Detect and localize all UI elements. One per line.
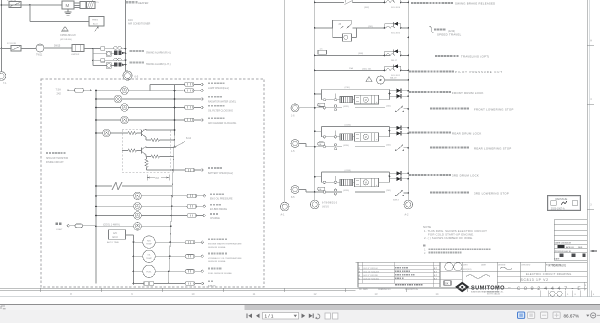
revision table right	[554, 220, 587, 260]
table number row	[554, 249, 587, 253]
svg-text:SENSOR SIGNAL: SENSOR SIGNAL	[208, 260, 227, 263]
label pilot pressure cut	[409, 70, 503, 74]
svg-text:5W13: 5W13	[393, 200, 399, 202]
svg-text:PILOT PRESSURE CUT: PILOT PRESSURE CUT	[455, 70, 503, 74]
label hyd oil temp	[208, 253, 242, 264]
label opt	[435, 55, 490, 59]
svg-text:SPEED TRAVEL: SPEED TRAVEL	[437, 33, 462, 37]
lamp L6	[95, 192, 233, 200]
earth bus E	[284, 0, 286, 202]
monitor bus	[95, 89, 97, 283]
wire	[314, 27, 333, 29]
svg-text:FUEL: FUEL	[146, 271, 152, 273]
svg-text:REAR LOWERING STOP: REAR LOWERING STOP	[474, 146, 512, 150]
svg-text:AIR CONDITIONER: AIR CONDITIONER	[128, 23, 151, 26]
svg-text:HYDRAULIC OIL TEMPERATURE: HYDRAULIC OIL TEMPERATURE	[208, 257, 242, 260]
wire	[84, 48, 100, 50]
motor TW11	[36, 44, 44, 57]
svg-text:2. ( ) SHOWS NUMBER OF WIRE.: 2. ( ) SHOWS NUMBER OF WIRE.	[424, 236, 473, 240]
svg-text:DRAWING NO.: DRAWING NO.	[378, 288, 391, 291]
svg-text:TEMP: TEMP	[146, 258, 152, 260]
reissue stamp	[548, 196, 581, 211]
stop switch 3RD	[314, 179, 409, 196]
svg-text:PRES: PRES	[92, 20, 98, 22]
svg-text:DESCRIPTION: DESCRIPTION	[405, 289, 419, 291]
approval strip	[540, 291, 595, 297]
svg-text:SENSOR SIGNAL: SENSOR SIGNAL	[208, 246, 227, 249]
label FRONT drum lock	[409, 91, 484, 95]
svg-text:CHARGE: CHARGE	[210, 217, 220, 220]
lamp L5	[95, 129, 128, 137]
limiter box U3	[71, 45, 84, 57]
amplifier boundary	[122, 130, 170, 173]
table note row	[549, 265, 567, 268]
svg-text:4/16: 4/16	[128, 19, 133, 22]
connector 1-5	[291, 140, 325, 154]
label cool switch	[103, 223, 120, 226]
lamp L4	[95, 116, 184, 124]
svg-text:M: M	[66, 3, 70, 8]
connector A-2	[404, 200, 413, 216]
buzzer BZ1	[106, 51, 114, 56]
right margin ticks	[587, 40, 594, 210]
warning triangle W1	[62, 27, 68, 32]
svg-text:5AL19: 5AL19	[390, 77, 397, 80]
wire	[2, 48, 37, 50]
svg-text:M: M	[365, 136, 367, 139]
amplifier riser	[169, 85, 176, 284]
svg-text:15A: 15A	[349, 67, 353, 70]
left bus lower	[1, 49, 3, 73]
connector 8-5	[291, 186, 325, 200]
svg-text:86.67%: 86.67%	[564, 313, 580, 318]
lamp L3	[95, 104, 184, 112]
svg-text:OIL FILTER CLOGGING: OIL FILTER CLOGGING	[208, 111, 233, 113]
gauge G2 oil temp	[134, 250, 171, 262]
svg-text:(4136): (4136)	[343, 190, 349, 192]
svg-text:(4132): (4132)	[345, 124, 352, 126]
pressure switch PS1	[333, 20, 357, 41]
svg-text:SWING ALARM (R.H.): SWING ALARM (R.H.)	[146, 51, 171, 54]
AC unit box U2	[89, 17, 104, 27]
label 3RD lowering stop	[430, 192, 509, 196]
ground GND1	[65, 9, 72, 15]
stop switch REAR	[314, 133, 409, 151]
terminal T6	[170, 240, 204, 244]
label FRONT lowering stop	[430, 107, 514, 111]
AC ECU box U4	[107, 230, 126, 245]
connector 7-1	[0, 72, 7, 85]
wire	[2, 4, 31, 6]
contact K3	[345, 0, 353, 5]
svg-text:A-2: A-2	[405, 214, 410, 217]
svg-text:2.: 2.	[424, 252, 426, 255]
svg-text:APR.03: APR.03	[566, 246, 574, 249]
svg-text:FRONT DRUM LOCK: FRONT DRUM LOCK	[452, 91, 484, 95]
dimension 8.8	[147, 175, 169, 181]
terminal T3	[185, 106, 204, 110]
svg-text:DWG: DWG	[463, 264, 468, 266]
label monitor circuit	[46, 152, 68, 164]
label 3RD drum lock	[409, 174, 479, 178]
label fuel sensor	[208, 268, 233, 276]
svg-text:7.5A: 7.5A	[56, 88, 62, 92]
title cells	[462, 262, 587, 290]
svg-text:FUEL SENSOR SIGNAL: FUEL SENSOR SIGNAL	[208, 272, 233, 275]
buzzer BZ2	[106, 63, 114, 68]
svg-text:A/C: A/C	[113, 232, 117, 235]
terminal T7	[170, 255, 204, 259]
svg-text:SWING ALARM (L.H.): SWING ALARM (L.H.)	[146, 63, 171, 66]
wire	[30, 5, 89, 22]
svg-text:BOTH-YA42A: BOTH-YA42A	[487, 293, 500, 296]
svg-text:DATE 20030108: DATE 20030108	[555, 241, 572, 244]
revision bottom row	[358, 287, 440, 291]
wire	[126, 234, 134, 236]
approval stamps	[440, 262, 462, 287]
wire 5W15	[44, 45, 72, 49]
svg-text:3RD LOWERING STOP: 3RD LOWERING STOP	[474, 192, 509, 196]
wire	[93, 60, 106, 65]
motor unit FRONT	[314, 87, 409, 104]
resistor R2	[146, 137, 175, 141]
callout 8-12	[173, 137, 192, 148]
wire	[147, 169, 174, 171]
svg-text:SOL.NO6: SOL.NO6	[391, 7, 401, 9]
wire	[314, 2, 344, 4]
svg-text:SWING BRAKE RELEASED: SWING BRAKE RELEASED	[455, 2, 495, 6]
svg-text:A-1: A-1	[281, 214, 286, 217]
resize grip	[1, 306, 6, 309]
relay bus R	[407, 0, 409, 200]
svg-text:BATTERY CHECK(hour): BATTERY CHECK(hour)	[208, 172, 233, 175]
alarm relay K2	[93, 59, 114, 62]
svg-text:TRAVELING (OPT): TRAVELING (OPT)	[461, 55, 490, 59]
control box U1	[62, 1, 74, 9]
note text	[423, 225, 487, 240]
svg-text:6-5: 6-5	[135, 74, 139, 78]
connector CNP	[310, 200, 337, 209]
title name	[526, 272, 572, 276]
svg-text:8-12: 8-12	[186, 137, 192, 140]
page cell	[584, 282, 587, 291]
svg-text:M: M	[365, 182, 367, 185]
title block frame	[356, 261, 588, 263]
buzzer BZ3	[377, 76, 410, 84]
gauge G3 fuel	[134, 265, 170, 277]
revision table	[358, 262, 440, 287]
svg-text:03.1.8 YJ31144: 03.1.8 YJ31144	[363, 268, 378, 270]
svg-text:ECU: ECU	[113, 236, 118, 239]
svg-text:SOL.NO5: SOL.NO5	[391, 33, 401, 35]
svg-text:SPDx/1ST MONITOR: SPDx/1ST MONITOR	[46, 158, 68, 160]
callout arrow	[95, 26, 99, 31]
label lamp check	[208, 82, 229, 90]
earth resistor	[134, 282, 169, 286]
svg-text:REISSUE: REISSUE	[556, 197, 568, 201]
svg-text:5W15: 5W15	[54, 45, 61, 48]
svg-text:TEMP: TEMP	[146, 244, 152, 246]
wire	[146, 147, 174, 148]
svg-text:CR501393-1/8: CR501393-1/8	[60, 34, 76, 37]
svg-text:ENGINE WATER TEMPERATURE: ENGINE WATER TEMPERATURE	[208, 243, 242, 246]
warning triangle W2	[366, 77, 372, 83]
break symbol N	[95, 182, 172, 190]
svg-text:M: M	[365, 99, 367, 102]
terminal T1	[150, 83, 203, 91]
node J2	[92, 48, 94, 50]
svg-text:(241) 241: (241) 241	[362, 68, 372, 70]
gauge G1 water temp	[134, 236, 172, 248]
svg-text:EX-BRK BRAKE: EX-BRK BRAKE	[210, 208, 227, 211]
wire 302	[353, 3, 386, 10]
wire	[146, 129, 175, 130]
resistor R4	[146, 155, 174, 158]
terminal T2	[185, 89, 204, 93]
svg-text:(241): (241)	[386, 106, 391, 108]
svg-text:(4131): (4131)	[343, 106, 349, 108]
svg-text:REAR DRUM LOCK: REAR DRUM LOCK	[452, 132, 482, 136]
svg-text:(241): (241)	[386, 190, 391, 192]
svg-text:04.8.20 YJ31350: 04.8.20 YJ31350	[363, 278, 380, 280]
svg-text:(241): (241)	[386, 145, 391, 147]
svg-text:(241): (241)	[368, 26, 373, 28]
gauge riser	[133, 235, 135, 284]
sheet bottom border	[0, 288, 600, 296]
svg-text:6-7/8-9/8/2/1-3: 6-7/8-9/8/2/1-3	[322, 203, 338, 205]
svg-text:AIR CLEANER CLOGGING: AIR CLEANER CLOGGING	[208, 122, 237, 125]
note text jp	[423, 244, 490, 255]
svg-text:1 / 1: 1 / 1	[265, 314, 274, 319]
svg-text:S/7 T/CHG NOTE: S/7 T/CHG NOTE	[546, 264, 562, 266]
transistor Q2	[137, 147, 147, 155]
resistor R3	[122, 149, 137, 152]
alarm horn HN2	[114, 62, 125, 66]
label speed travel	[429, 26, 462, 37]
fuse F2	[314, 48, 390, 56]
svg-text:LAMP CHECK(hour): LAMP CHECK(hour)	[208, 87, 229, 90]
svg-text:242: 242	[57, 91, 62, 95]
relay SOL5	[383, 22, 409, 39]
node J1	[29, 4, 31, 6]
wire	[314, 67, 386, 72]
title header texts	[463, 263, 562, 266]
switch 5W13 label	[393, 200, 399, 202]
wire 308	[358, 53, 363, 55]
label swing alarm LH	[130, 61, 171, 66]
svg-text:(210): (210)	[345, 87, 350, 89]
lamp L1	[95, 87, 183, 95]
svg-text:INSIDE CIRCUIT: INSIDE CIRCUIT	[46, 162, 64, 164]
svg-text:5Y11Y48: 5Y11Y48	[7, 43, 17, 45]
svg-text:04.1.9 YJ31288: 04.1.9 YJ31288	[363, 275, 378, 277]
lamp L2	[95, 95, 203, 103]
svg-text:AUTO TIME: AUTO TIME	[107, 241, 119, 244]
svg-text:H2O: H2O	[147, 240, 152, 242]
transistor Q1	[137, 129, 147, 137]
svg-text:5Y13Y48: 5Y13Y48	[7, 0, 17, 2]
svg-text:(308): (308)	[358, 53, 363, 55]
alarm connector CN2	[114, 58, 126, 61]
svg-text:5EL17: 5EL17	[391, 60, 398, 62]
svg-text:(-8/1-5: (-8/1-5	[322, 207, 329, 209]
accessory bus	[126, 0, 128, 71]
alarm horn HN1	[114, 50, 125, 54]
fuse F1 7.5A	[56, 88, 93, 96]
svg-text:03.4.16 YJ31209: 03.4.16 YJ31209	[363, 271, 380, 273]
connector A-1	[280, 202, 289, 216]
svg-text:ENG OIL PRESSURE: ENG OIL PRESSURE	[210, 199, 233, 201]
bottom ruler	[41, 288, 468, 296]
margin arrow	[591, 250, 598, 252]
wire 241a	[353, 26, 386, 28]
terminal T4	[185, 118, 204, 122]
resistor R1	[128, 131, 137, 134]
alarm connector CN1	[114, 47, 126, 50]
resistor R5	[145, 157, 148, 171]
motor unit 3RD	[314, 170, 409, 187]
label battery check	[208, 167, 233, 175]
terminal T5	[173, 168, 203, 172]
svg-text:(4134): (4134)	[343, 145, 349, 147]
label REAR drum lock	[409, 132, 482, 136]
switch S1 5Y13Y48	[7, 0, 21, 7]
svg-text:OK: OK	[445, 283, 449, 286]
svg-text:DATE: DATE	[481, 263, 487, 266]
svg-text:2023-1007-A: 2023-1007-A	[551, 207, 565, 210]
stop switch FRONT	[314, 96, 409, 112]
wire	[93, 53, 106, 55]
svg-text:LIMITER: LIMITER	[71, 54, 80, 56]
label oil filter	[208, 105, 233, 113]
svg-text:EARTH: EARTH	[208, 285, 216, 288]
table stamp row	[554, 253, 587, 261]
svg-text:DES: DES	[578, 247, 583, 249]
svg-text:DESIGN: DESIGN	[498, 264, 506, 266]
page navigation	[247, 312, 338, 319]
drawing number	[508, 285, 581, 292]
label air conditioner	[128, 19, 151, 26]
svg-text:(302): (302)	[364, 7, 369, 9]
svg-text:FRONT LOWERING STOP: FRONT LOWERING STOP	[474, 107, 514, 111]
svg-text:HEATER: HEATER	[138, 1, 148, 5]
relay SOL1	[383, 64, 409, 77]
label REAR lowering stop	[430, 146, 512, 150]
connector 6-5	[123, 71, 139, 80]
svg-text:(COOL 1 4WAY): (COOL 1 4WAY)	[103, 223, 120, 226]
title model	[521, 278, 549, 282]
svg-text:TW11: TW11	[36, 54, 43, 57]
svg-text:(4135): (4135)	[345, 170, 352, 172]
relay SOL6	[383, 0, 409, 9]
svg-text:H: H	[590, 40, 592, 43]
svg-text:SS7(201): SS7(201)	[463, 269, 472, 271]
table date row	[554, 240, 587, 244]
relay SOL4	[383, 49, 409, 62]
lamp L7	[95, 203, 227, 211]
node	[125, 59, 127, 65]
svg-text:ELECTRIC CIRCUIT DRAWING: ELECTRIC CIRCUIT DRAWING	[526, 272, 572, 276]
heater resistor cluster	[80, 0, 99, 9]
label engine water temp	[208, 238, 242, 249]
svg-text:3RD DRUM LOCK: 3RD DRUM LOCK	[452, 174, 479, 178]
note text CR501393	[60, 34, 76, 41]
label air cleaner	[208, 117, 237, 125]
title sub texts	[463, 267, 512, 271]
svg-text:(4P-24LNG): (4P-24LNG)	[60, 39, 72, 41]
power source row	[56, 223, 97, 231]
svg-text:NO. DATE: NO. DATE	[359, 288, 369, 291]
label radiator water	[208, 96, 237, 104]
label swing alarm RH	[130, 50, 172, 55]
signature	[466, 275, 490, 279]
svg-text:ACU: ACU	[93, 23, 98, 26]
sheet right border	[587, 0, 589, 297]
alarm relay K1	[93, 47, 114, 50]
table drawn row	[554, 245, 587, 249]
svg-text:RADIATOR WATER LEVEL: RADIATOR WATER LEVEL	[208, 101, 237, 104]
zoom controls	[518, 312, 600, 318]
svg-text:SC813 1P V2: SC813 1P V2	[521, 278, 549, 282]
node	[125, 48, 127, 54]
main bus P	[314, 0, 316, 200]
connector 1-6	[291, 103, 325, 117]
label swing brake release	[411, 2, 495, 6]
lamp L9	[95, 223, 172, 231]
switch S2 5Y11Y48	[7, 43, 21, 51]
svg-text:LIGHT: LIGHT	[56, 229, 63, 231]
svg-text:CHECKED: CHECKED	[521, 264, 531, 266]
motor unit REAR	[314, 124, 409, 141]
terminal T9	[169, 282, 204, 286]
wire	[30, 4, 62, 6]
monitor boundary dashed	[41, 79, 264, 287]
lamp L8	[95, 212, 220, 220]
link wire	[92, 49, 94, 61]
label earth	[208, 280, 216, 287]
margin note	[487, 291, 500, 296]
label heater	[126, 1, 148, 5]
terminal T8	[169, 270, 204, 274]
left power bus	[1, 0, 3, 72]
sumitomo logo	[455, 282, 505, 294]
wire	[74, 3, 80, 8]
scrollbar	[0, 304, 600, 323]
